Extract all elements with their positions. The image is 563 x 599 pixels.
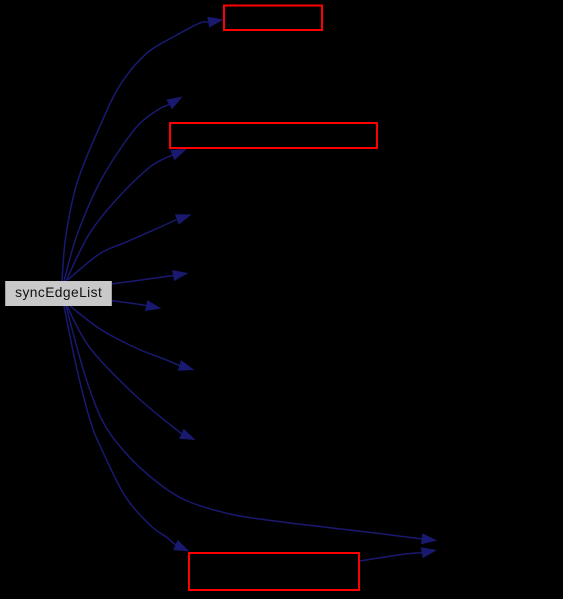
svg-text:syncEdgeList: syncEdgeList (15, 285, 102, 300)
edge E7 (70, 306, 194, 371)
edge E10 long right (66, 306, 437, 544)
edge E3 to mid box (66, 149, 187, 281)
node syncEdgeList (grey current node) (5, 281, 112, 306)
edge E4 (68, 214, 192, 279)
edge E2 (64, 97, 183, 282)
edge E1 to top box (62, 17, 224, 281)
edge E9 to bot box (64, 306, 190, 552)
edge E5 (111, 270, 188, 284)
edge E11 from bot box (360, 547, 437, 561)
node top red box (224, 6, 322, 31)
node middle red box (170, 123, 377, 148)
node bottom red box (189, 553, 359, 590)
edge E8 (67, 306, 196, 440)
edge E6 (111, 300, 161, 311)
